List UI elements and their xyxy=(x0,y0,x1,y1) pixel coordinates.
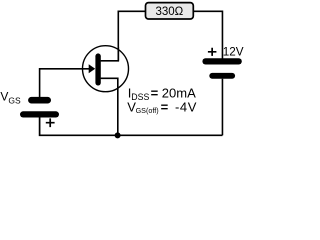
wire top rail right segment xyxy=(193,11,222,58)
resistor R1 330ohm xyxy=(146,3,194,19)
junction node dot xyxy=(115,132,121,138)
battery B1 plus sign xyxy=(208,48,217,56)
svg-text:-4V: -4V xyxy=(175,99,197,114)
transistor Q1 source lead xyxy=(101,78,118,135)
wire right vertical lower xyxy=(221,79,223,136)
battery VGS positive plate xyxy=(20,111,59,117)
battery VGS plus sign xyxy=(46,118,55,127)
svg-text:= 20mA: = 20mA xyxy=(151,86,196,101)
wire top rail left segment xyxy=(118,11,145,61)
battery VGS negative plate xyxy=(28,97,51,104)
svg-text:GS(off): GS(off) xyxy=(136,106,159,115)
battery B1 12V positive plate xyxy=(202,58,241,64)
transistor Q1 gate wire xyxy=(40,69,90,97)
svg-text:330Ω: 330Ω xyxy=(156,6,184,18)
svg-text:12V: 12V xyxy=(223,46,244,59)
svg-text:=: = xyxy=(161,99,169,114)
battery B1 12V negative plate xyxy=(209,73,235,79)
transistor Q1 drain lead xyxy=(101,47,119,61)
transistor Q1 gate arrowhead xyxy=(89,64,96,73)
transistor Q1 JFET body circle xyxy=(83,46,129,92)
transistor Q1 channel bar xyxy=(95,53,100,85)
wire bottom rail xyxy=(40,117,223,135)
